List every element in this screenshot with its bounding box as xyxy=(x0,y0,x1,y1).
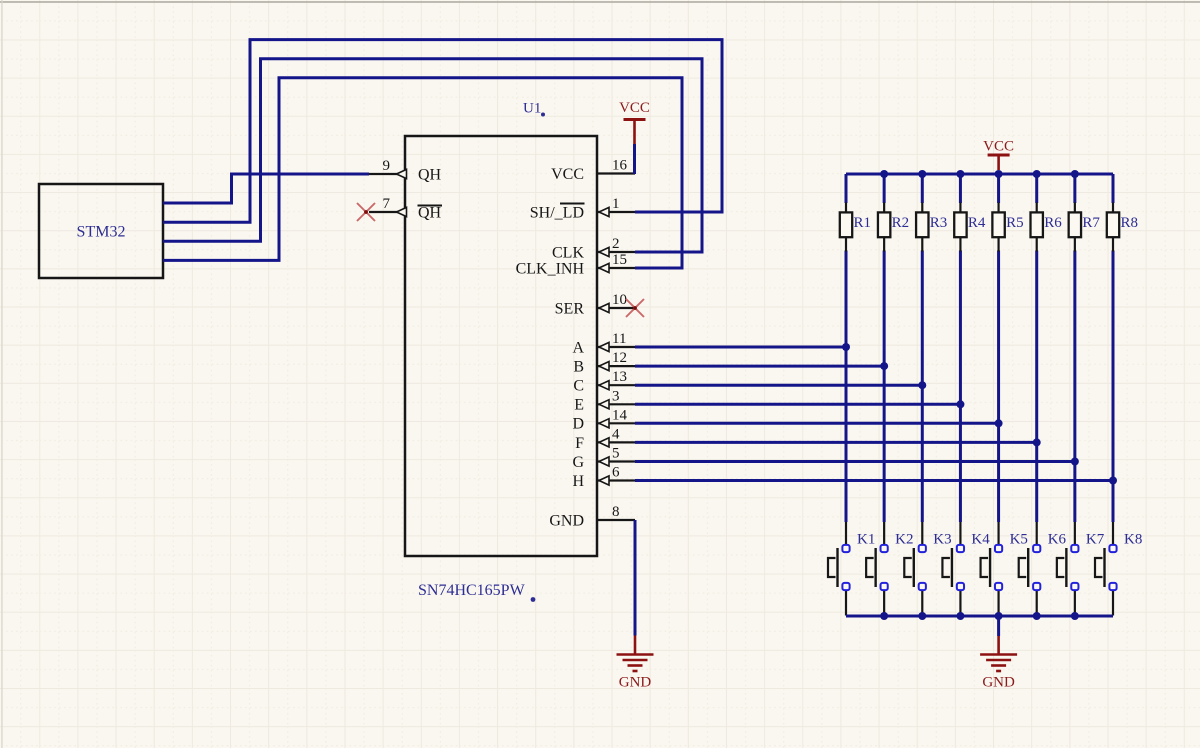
pin 10 SER (U1 right) xyxy=(555,292,635,317)
wire R5 to K5 xyxy=(997,251,1000,523)
junction G-wire / column 7 xyxy=(1071,458,1079,466)
pin 2 CLK (U1 right) xyxy=(552,236,635,261)
pin 14 D (U1 right) xyxy=(572,407,635,432)
pushbutton K4 xyxy=(942,522,990,616)
svg-text:C: C xyxy=(573,378,584,395)
svg-text:U1: U1 xyxy=(523,101,541,117)
no-connect X on pin 7 xyxy=(357,203,375,221)
wire column 6 rail to R6 xyxy=(1035,174,1038,203)
resistor R7 xyxy=(1069,203,1101,252)
comment SN74HC165PW xyxy=(418,582,535,602)
svg-text:K7: K7 xyxy=(1086,532,1105,548)
pin 8 GND (U1 right) xyxy=(549,504,635,529)
svg-text:9: 9 xyxy=(383,158,391,174)
svg-text:R1: R1 xyxy=(854,215,872,231)
junction C-wire / column 3 xyxy=(918,381,926,389)
wire column 5 rail to R5 xyxy=(997,174,1000,203)
junction top rail col 4 xyxy=(956,170,964,178)
wire STM32 to U1 pin 1 SH/_LD xyxy=(163,40,722,223)
svg-text:K5: K5 xyxy=(1010,532,1028,548)
svg-text:GND: GND xyxy=(619,675,652,691)
wire U1 pin8 to GND xyxy=(634,520,637,636)
pin 1 SH/_LD (U1 right) xyxy=(530,196,635,222)
svg-text:12: 12 xyxy=(612,350,627,366)
svg-text:K4: K4 xyxy=(971,532,990,548)
svg-text:14: 14 xyxy=(612,407,628,423)
svg-text:3: 3 xyxy=(612,388,620,404)
wire U1 pin H to column K8 xyxy=(635,479,1113,482)
pin 7 /QH (U1 left) xyxy=(369,196,442,222)
wire U1 pin E to column K4 xyxy=(635,403,960,406)
wire column 2 rail to R2 xyxy=(883,174,886,203)
pin 13 C (U1 right) xyxy=(573,369,635,394)
wire VCC top rail xyxy=(846,173,1113,176)
svg-text:1: 1 xyxy=(612,196,620,212)
wire column 4 rail to R4 xyxy=(959,174,962,203)
wire R8 to K8 xyxy=(1112,251,1115,523)
junction D-wire / column 5 xyxy=(995,419,1003,427)
resistor R4 xyxy=(954,203,986,252)
resistor R8 xyxy=(1107,203,1138,252)
designator U1 xyxy=(523,101,545,117)
svg-text:H: H xyxy=(572,473,584,490)
pin 4 F (U1 right) xyxy=(575,426,635,451)
wire U1 pin A to column K1 xyxy=(635,346,846,349)
svg-text:K8: K8 xyxy=(1124,532,1142,548)
junction bottom rail col 7 xyxy=(1071,612,1079,620)
wire U1 pin G to column K7 xyxy=(635,460,1075,463)
wire column 1 rail to R1 xyxy=(845,174,848,203)
pushbutton K5 xyxy=(981,522,1028,616)
svg-text:15: 15 xyxy=(612,252,627,268)
junction bottom rail col 3 xyxy=(918,612,926,620)
power VCC (U1) xyxy=(619,100,650,144)
svg-text:VCC: VCC xyxy=(983,139,1014,155)
resistor R6 xyxy=(1031,203,1063,252)
wire column 7 rail to R7 xyxy=(1073,174,1076,203)
svg-text:F: F xyxy=(575,435,584,452)
pin 12 B (U1 right) xyxy=(573,350,635,375)
svg-text:6: 6 xyxy=(612,465,620,481)
svg-text:K2: K2 xyxy=(895,532,913,548)
pushbutton K2 xyxy=(866,522,913,616)
svg-text:GND: GND xyxy=(549,512,584,529)
resistor R5 xyxy=(992,203,1023,252)
power VCC (resistor rail) xyxy=(983,139,1014,171)
svg-text:VCC: VCC xyxy=(619,100,650,116)
svg-text:4: 4 xyxy=(612,426,620,442)
svg-text:5: 5 xyxy=(612,446,620,462)
pin 15 CLK_INH (U1 right) xyxy=(516,252,635,277)
resistor R1 xyxy=(840,203,871,252)
svg-text:D: D xyxy=(572,416,584,433)
svg-text:R5: R5 xyxy=(1006,215,1024,231)
svg-text:2: 2 xyxy=(612,236,620,252)
svg-text:K3: K3 xyxy=(933,532,951,548)
svg-text:B: B xyxy=(573,359,584,376)
IC U1 SN74HC165PW body xyxy=(405,136,597,556)
pin 3 E (U1 right) xyxy=(574,388,635,413)
svg-text:R6: R6 xyxy=(1044,215,1062,231)
svg-text:STM32: STM32 xyxy=(77,224,126,241)
pin 9 QH (U1 left) xyxy=(369,158,442,184)
svg-text:G: G xyxy=(572,454,584,471)
ground GND (keys) xyxy=(980,636,1017,691)
wire U1 pin F to column K6 xyxy=(635,441,1037,444)
ground GND (U1) xyxy=(617,636,654,691)
component STM32 xyxy=(39,184,163,278)
junction top rail col 3 xyxy=(918,170,926,178)
svg-text:SH/_LD: SH/_LD xyxy=(530,205,584,222)
wire GND bottom rail xyxy=(846,615,1113,618)
pin 5 G (U1 right) xyxy=(572,446,635,471)
wire R4 to K4 xyxy=(959,251,962,523)
svg-text:GND: GND xyxy=(982,675,1015,691)
pushbutton K3 xyxy=(904,522,951,616)
svg-text:CLK: CLK xyxy=(552,244,584,261)
wire STM32 to U1 pin 2 CLK xyxy=(163,59,702,252)
junction bottom rail col 5 xyxy=(995,612,1003,620)
svg-text:R7: R7 xyxy=(1082,215,1100,231)
svg-text:E: E xyxy=(574,397,584,414)
wire U1 pin B to column K2 xyxy=(635,365,884,368)
wire U1 pin C to column K3 xyxy=(635,384,922,387)
junction top rail col 7 xyxy=(1071,170,1079,178)
svg-text:11: 11 xyxy=(612,331,626,347)
junction bottom rail col 6 xyxy=(1033,612,1041,620)
wire U1 pin16 to VCC xyxy=(633,144,636,174)
wire column 3 rail to R3 xyxy=(921,174,924,203)
junction F-wire / column 6 xyxy=(1033,438,1041,446)
junction top rail col 6 xyxy=(1033,170,1041,178)
svg-text:QH: QH xyxy=(418,167,442,184)
wire STM32 to U1 pin 15 CLK_INH xyxy=(163,78,682,268)
no-connect X on pin 10 SER xyxy=(626,299,644,317)
wire R1 to K1 xyxy=(845,251,848,523)
junction A-wire / column 1 xyxy=(842,343,850,351)
svg-text:A: A xyxy=(572,339,584,356)
svg-text:13: 13 xyxy=(612,369,627,385)
svg-text:SER: SER xyxy=(555,300,585,317)
pushbutton K7 xyxy=(1057,522,1105,616)
junction top rail col 5 xyxy=(995,170,1003,178)
svg-text:CLK_INH: CLK_INH xyxy=(516,260,585,277)
junction E-wire / column 4 xyxy=(956,400,964,408)
wire R6 to K6 xyxy=(1035,251,1038,523)
svg-text:10: 10 xyxy=(612,292,627,308)
pin 6 H (U1 right) xyxy=(572,465,635,490)
svg-text:VCC: VCC xyxy=(551,166,584,183)
svg-text:K1: K1 xyxy=(857,532,875,548)
wire R3 to K3 xyxy=(921,251,924,523)
svg-text:8: 8 xyxy=(612,504,620,520)
pushbutton K6 xyxy=(1019,522,1067,616)
svg-text:7: 7 xyxy=(383,196,391,212)
resistor R2 xyxy=(878,203,909,252)
pushbutton K1 xyxy=(828,522,875,616)
wire R2 to K2 xyxy=(883,251,886,523)
junction B-wire / column 2 xyxy=(880,362,888,370)
wire R7 to K7 xyxy=(1073,251,1076,523)
svg-text:R3: R3 xyxy=(930,215,948,231)
wire STM32 to U1 pin 9 QH xyxy=(163,174,369,203)
pin 11 A (U1 right) xyxy=(572,331,635,356)
svg-text:16: 16 xyxy=(612,158,628,174)
junction top rail col 2 xyxy=(880,170,888,178)
pin 16 VCC (U1 right) xyxy=(551,158,635,183)
svg-text:SN74HC165PW: SN74HC165PW xyxy=(418,582,526,599)
svg-text:R4: R4 xyxy=(968,215,986,231)
resistor R3 xyxy=(916,203,947,252)
junction bottom rail col 2 xyxy=(880,612,888,620)
pushbutton K8 xyxy=(1095,522,1142,616)
junction H-wire / column 8 xyxy=(1109,477,1117,485)
junction bottom rail col 4 xyxy=(956,612,964,620)
wire column 8 rail to R8 xyxy=(1112,174,1115,203)
wire U1 pin D to column K5 xyxy=(635,422,999,425)
svg-text:R8: R8 xyxy=(1121,215,1139,231)
wire rail to GND (keys) xyxy=(997,616,1000,636)
svg-text:QH: QH xyxy=(418,205,442,222)
svg-text:R2: R2 xyxy=(892,215,910,231)
svg-text:K6: K6 xyxy=(1048,532,1067,548)
